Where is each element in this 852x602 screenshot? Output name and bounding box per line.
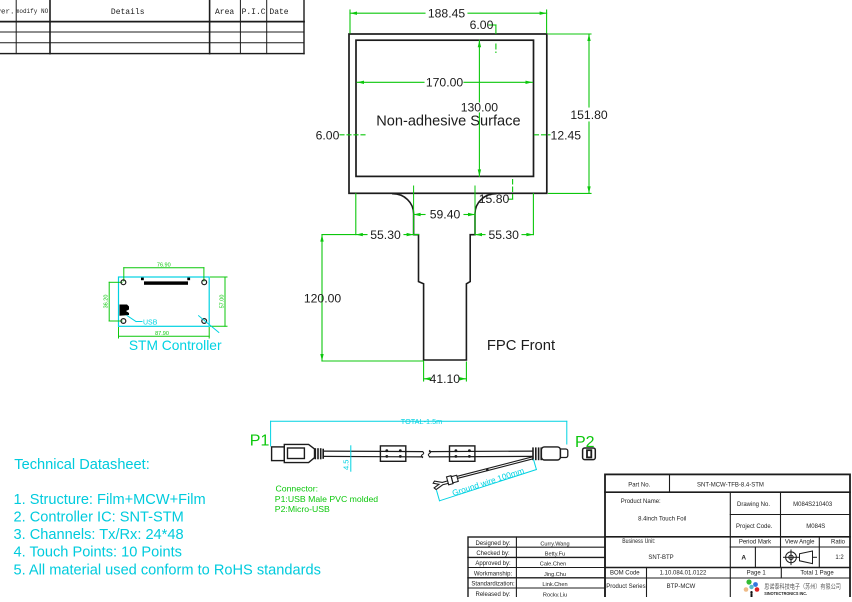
left signer sub-table: [468, 537, 605, 598]
svg-text:8.4inch Touch Foil: 8.4inch Touch Foil: [638, 517, 686, 523]
svg-text:Connector:: Connector:: [276, 484, 319, 494]
FPC outline: [393, 194, 496, 360]
svg-text:41.10: 41.10: [430, 372, 461, 386]
svg-text:Rocky.Liu: Rocky.Liu: [543, 592, 567, 597]
dim 55.30 right: [475, 194, 533, 237]
panel inner rect (active area): [356, 40, 534, 176]
svg-text:Cale.Chen: Cale.Chen: [540, 562, 566, 568]
connector notes green: [275, 484, 378, 515]
svg-text:Area: Area: [215, 8, 234, 17]
dim 55.30 left: [322, 194, 419, 237]
revision table headers: [0, 8, 289, 17]
column lines: [669, 474, 671, 492]
svg-text:FPC Front: FPC Front: [487, 338, 555, 354]
svg-text:BTP-MCW: BTP-MCW: [667, 584, 696, 590]
svg-text:Jing.Chu: Jing.Chu: [544, 572, 566, 578]
dim 170.00: [357, 81, 533, 84]
svg-text:2. Controller IC: SNT-STM: 2. Controller IC: SNT-STM: [14, 510, 184, 526]
board dim texts green: [104, 263, 226, 338]
svg-text:1. Structure: Film+MCW+Film: 1. Structure: Film+MCW+Film: [14, 492, 206, 508]
svg-text:188.45: 188.45: [428, 7, 465, 21]
svg-text:P1: P1: [250, 433, 270, 450]
controller board rect cyan: [119, 277, 210, 326]
dim 12.45 leader dashes: [535, 134, 551, 136]
board mounting holes: [121, 280, 207, 324]
svg-text:Technical Datasheet:: Technical Datasheet:: [14, 457, 149, 473]
svg-text:Approved by:: Approved by:: [475, 561, 511, 567]
svg-text:STM Controller: STM Controller: [129, 338, 222, 353]
svg-text:87.90: 87.90: [155, 331, 169, 337]
svg-text:1.10.084.01.0122: 1.10.084.01.0122: [660, 571, 707, 577]
svg-text:Non-adhesive Surface: Non-adhesive Surface: [376, 114, 520, 130]
svg-text:SINOTECTRONICS INC.: SINOTECTRONICS INC.: [764, 591, 807, 596]
svg-text:P.I.C: P.I.C: [242, 8, 266, 17]
svg-text:Page 1: Page 1: [747, 571, 767, 577]
svg-text:36.20: 36.20: [104, 295, 110, 309]
board FFC connector bar: [141, 278, 190, 285]
board green dims: [109, 268, 227, 338]
P1 strain relief ribs: [315, 449, 323, 459]
micro usb plug tip: [560, 449, 567, 458]
svg-text:Project Code.: Project Code.: [736, 524, 773, 530]
svg-text:Details: Details: [111, 8, 145, 17]
svg-text:Ratio: Ratio: [831, 540, 846, 546]
ferrite bead 2: [450, 446, 475, 461]
row lines: [605, 491, 850, 493]
svg-text:SNT-MCW-TFB-8.4-STM: SNT-MCW-TFB-8.4-STM: [697, 483, 764, 489]
svg-text:Total 1 Page: Total 1 Page: [800, 571, 834, 577]
svg-text:Product Name:: Product Name:: [621, 499, 661, 505]
svg-text:151.80: 151.80: [570, 108, 607, 122]
svg-text:P1:USB Male PVC molded: P1:USB Male PVC molded: [275, 494, 378, 504]
USB A connector P1: [272, 444, 315, 462]
svg-text:A: A: [741, 554, 746, 561]
svg-text:Date: Date: [269, 8, 288, 17]
svg-text:120.00: 120.00: [304, 291, 341, 305]
svg-text:Business Unit:: Business Unit:: [622, 539, 655, 545]
svg-text:1:2: 1:2: [835, 555, 844, 561]
svg-text:6.00: 6.00: [470, 18, 494, 32]
green dimensions of panel: [320, 10, 591, 381]
company logo splats: [744, 579, 760, 597]
outer border: [605, 474, 850, 599]
micro usb connector body: [541, 447, 560, 460]
svg-text:Part No.: Part No.: [628, 483, 650, 489]
svg-text:M084S: M084S: [806, 524, 825, 530]
usb leader cyan: [127, 316, 219, 333]
svg-text:modify NO.: modify NO.: [16, 8, 52, 15]
svg-text:76.90: 76.90: [157, 263, 171, 269]
panel outer rect: [349, 34, 547, 193]
svg-text:15.80: 15.80: [479, 192, 510, 206]
ferrite bead 1: [380, 446, 405, 461]
ground wire: [432, 457, 533, 490]
svg-text:Checked by:: Checked by:: [476, 551, 510, 557]
dim 188.45: [350, 10, 547, 33]
micro usb ribs: [533, 448, 541, 459]
cable lines: [324, 450, 532, 457]
svg-text:Workmanship:: Workmanship:: [474, 571, 513, 577]
svg-text:M084S210403: M084S210403: [793, 502, 833, 508]
board usb socket blob: [120, 305, 130, 316]
svg-text:BOM Code: BOM Code: [610, 571, 640, 577]
svg-text:170.00: 170.00: [426, 76, 463, 90]
svg-text:4. Touch Points: 10 Points: 4. Touch Points: 10 Points: [14, 545, 182, 561]
svg-text:12.45: 12.45: [551, 129, 582, 143]
svg-text:57.00: 57.00: [220, 295, 226, 309]
ground wire dim cyan: [437, 460, 537, 501]
svg-text:Designed by:: Designed by:: [475, 541, 510, 547]
svg-text:Link.Chen: Link.Chen: [542, 582, 567, 588]
svg-text:Released by:: Released by:: [475, 592, 510, 597]
dim 120.00 vertical: [320, 235, 423, 361]
svg-text:View Angle: View Angle: [785, 540, 815, 546]
svg-text:5. All material used conform t: 5. All material used conform to RoHS sta…: [14, 562, 321, 578]
title block texts: [606, 483, 845, 590]
svg-text:思诺泰科技电子（苏州）有限公司: 思诺泰科技电子（苏州）有限公司: [764, 582, 841, 591]
signer table texts: [471, 541, 569, 599]
svg-text:55.30: 55.30: [370, 228, 401, 242]
dim 151.80 vertical right: [549, 34, 591, 193]
dim 6.00 left leader dashes: [340, 134, 366, 136]
svg-text:Standardization:: Standardization:: [471, 582, 515, 588]
dim 59.40: [414, 186, 475, 235]
svg-text:TOTAL-1.5m: TOTAL-1.5m: [401, 417, 443, 426]
svg-text:Curry.Wang: Curry.Wang: [540, 541, 569, 547]
svg-text:Betty.Fu: Betty.Fu: [545, 552, 565, 558]
P2 front view icon: [583, 448, 596, 460]
dim 130.00 vertical: [478, 40, 481, 176]
svg-text:130.00: 130.00: [461, 101, 498, 115]
total length dim cyan: [271, 421, 567, 446]
dimension texts black: [304, 7, 608, 387]
svg-text:6.00: 6.00: [316, 129, 340, 143]
dim 41.10: [424, 362, 467, 381]
svg-text:Product Series: Product Series: [606, 584, 645, 590]
projection view symbol: [784, 550, 817, 565]
svg-text:USB: USB: [143, 320, 158, 327]
svg-text:ver.: ver.: [0, 9, 15, 17]
dim 15.80 leader: [509, 180, 513, 200]
svg-text:55.30: 55.30: [488, 228, 519, 242]
dim 6.00 top leader: [489, 25, 496, 53]
svg-text:3. Channels: Tx/Rx: 24*48: 3. Channels: Tx/Rx: 24*48: [14, 527, 184, 543]
svg-text:59.40: 59.40: [430, 208, 461, 222]
cable diameter dim 4.5: [350, 446, 352, 471]
svg-text:4.5: 4.5: [342, 460, 351, 470]
svg-text:SNT-BTP: SNT-BTP: [648, 555, 673, 561]
svg-text:P2:Micro-USB: P2:Micro-USB: [275, 504, 330, 514]
svg-text:Drawing No.: Drawing No.: [737, 502, 770, 508]
revision table grid: [0, 0, 304, 54]
svg-text:Period Mark: Period Mark: [739, 540, 772, 546]
